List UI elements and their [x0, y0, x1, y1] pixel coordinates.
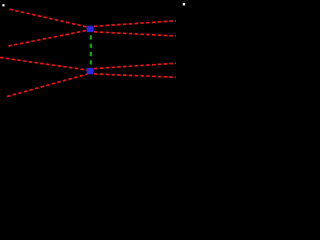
- marker dot top-right: [183, 3, 185, 5]
- ray B (left-middle, incoming to node N1): [9, 30, 88, 46]
- ray E (upper-right, outgoing): [94, 21, 176, 27]
- bottom plate / letterbox bar: [0, 103, 188, 106]
- top plate / letterbox bar: [0, 0, 188, 3]
- marker dot top-left: [2, 4, 4, 6]
- aperture axis (green dashed): [90, 35, 92, 64]
- node N1 (top blue pad): [87, 26, 94, 32]
- ray H (lower-right, outgoing): [94, 74, 176, 77]
- background field: [0, 0, 188, 106]
- ray G (right, outgoing from node N2): [94, 63, 176, 68]
- ray A (upper-left, incoming): [10, 9, 88, 27]
- ray C (left-middle, incoming to node N2): [0, 58, 87, 71]
- ray D (lower-left, incoming): [7, 74, 87, 96]
- ray F (right, outgoing from node N1): [94, 32, 176, 36]
- node N2 (bottom blue pad): [87, 68, 94, 74]
